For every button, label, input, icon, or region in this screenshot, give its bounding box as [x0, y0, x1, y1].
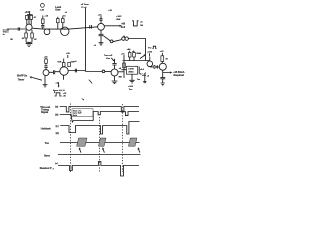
- svg-text:(a): (a): [55, 106, 58, 109]
- svg-text:Sh/FFOs: Sh/FFOs: [17, 75, 28, 78]
- svg-text:Signal: Signal: [41, 111, 49, 114]
- svg-text:+150: +150: [147, 51, 153, 53]
- svg-text:Pt +4: Pt +4: [81, 6, 87, 9]
- svg-text:Timer: Timer: [18, 78, 25, 81]
- svg-text:MB: MB: [119, 77, 123, 79]
- svg-text:1M: 1M: [140, 25, 143, 27]
- svg-text:C2H5: C2H5: [128, 69, 134, 71]
- svg-text:Gate: Gate: [55, 9, 61, 12]
- svg-text:2K: 2K: [10, 39, 13, 41]
- svg-text:Tss: Tss: [45, 142, 50, 145]
- svg-text:(b): (b): [55, 114, 58, 117]
- svg-text:+15C: +15C: [116, 16, 122, 18]
- svg-text:+8 Tune: +8 Tune: [81, 4, 90, 6]
- svg-text:Required: Required: [174, 74, 185, 77]
- svg-text:Unblank: Unblank: [41, 128, 51, 131]
- svg-text:Pul: Pul: [148, 47, 152, 49]
- svg-text:(c): (c): [56, 125, 59, 128]
- svg-text:(e): (e): [55, 163, 58, 165]
- svg-text:Sync: Sync: [44, 155, 51, 158]
- svg-text:10K: 10K: [57, 61, 61, 63]
- svg-text:1K: 1K: [34, 39, 37, 41]
- svg-text:(d): (d): [56, 132, 59, 135]
- svg-text:2x4: 2x4: [121, 26, 126, 29]
- svg-text:2N04: 2N04: [128, 71, 134, 74]
- svg-text:Readout P: Readout P: [40, 167, 52, 170]
- svg-text:+100: +100: [128, 86, 134, 88]
- svg-text:2: 2: [53, 169, 54, 171]
